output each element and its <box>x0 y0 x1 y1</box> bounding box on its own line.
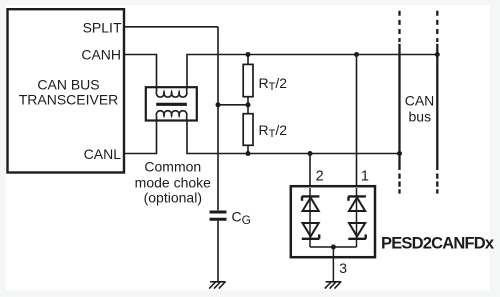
capacitor CG <box>210 212 227 219</box>
svg-text:CAN BUS: CAN BUS <box>37 77 99 93</box>
svg-text:1: 1 <box>361 169 369 185</box>
wire branch SPLIT to resistor midpoint <box>218 104 248 106</box>
junction node CANH-pin1 <box>354 52 359 57</box>
junction node CANH-bus <box>435 52 440 57</box>
label CG <box>232 209 251 228</box>
wire CANL pin to choke bottom-left <box>124 121 157 154</box>
wire resistor R1 top stub <box>247 55 249 65</box>
wire PESD pin 1 to CANH <box>356 55 358 187</box>
wire SPLIT pin to vertical <box>124 26 218 28</box>
TVS diode D1 top-left (zener up) <box>302 196 320 211</box>
wire choke top-right to CAN bus H line <box>187 55 437 89</box>
wire CG to ground <box>217 221 219 282</box>
ground under CG <box>209 282 226 289</box>
junction node SPLIT-branch <box>216 102 221 107</box>
resistor RT/2 upper <box>243 64 253 96</box>
pin label CANH <box>81 47 121 63</box>
common mode choke L1 <box>146 87 197 121</box>
wire choke bottom-right to CAN bus L line <box>187 121 400 154</box>
label CAN bus <box>405 93 435 125</box>
junction node CANL-R <box>246 151 251 156</box>
wire SPLIT vertical down to CG <box>217 27 219 211</box>
internal rail to pin 3 <box>310 247 357 281</box>
resistor RT/2 lower <box>243 114 253 146</box>
svg-text:mode choke: mode choke <box>135 175 211 191</box>
pin label CANL <box>84 146 122 162</box>
internal wire right stack <box>356 188 358 247</box>
svg-text:CAN: CAN <box>405 93 435 109</box>
label PESD2CANFDx <box>381 235 495 253</box>
CAN bus line CANH (right) <box>436 11 438 194</box>
pin label 2 <box>316 169 324 185</box>
junction node CANL-bus <box>397 151 402 156</box>
svg-text:bus: bus <box>409 109 432 125</box>
CAN bus line CANL (left) <box>398 11 400 194</box>
PESD2CANFDx box U2 <box>291 186 375 257</box>
label RT/2 lower <box>259 122 288 140</box>
svg-text:SPLIT: SPLIT <box>83 20 122 36</box>
junction node CANL-pin2 <box>308 151 313 156</box>
label Common mode choke (optional) <box>135 159 211 206</box>
junction node R midpoint <box>246 102 251 107</box>
pin label SPLIT <box>83 20 122 36</box>
junction node pin3 rail <box>331 245 336 250</box>
svg-text:3: 3 <box>339 260 347 276</box>
svg-text:CANH: CANH <box>81 47 121 63</box>
svg-text:PESD2CANFDx: PESD2CANFDx <box>381 235 495 253</box>
svg-text:CANL: CANL <box>84 146 122 162</box>
CAN BUS TRANSCEIVER box U1 <box>8 9 125 172</box>
svg-text:TRANSCEIVER: TRANSCEIVER <box>19 92 119 108</box>
svg-text:Common: Common <box>144 159 201 175</box>
junction node CANH-R <box>246 52 251 57</box>
pin label 1 <box>361 169 369 185</box>
label RT/2 upper <box>259 75 288 93</box>
ground under PESD pin 3 <box>325 282 342 289</box>
wire CANH pin to choke top-left <box>124 55 157 89</box>
wire PESD pin 2 to CANL <box>309 154 311 187</box>
svg-text:2: 2 <box>316 169 324 185</box>
svg-text:(optional): (optional) <box>144 190 202 206</box>
internal wire left stack <box>309 188 311 247</box>
wire resistor R2 bottom stub <box>247 145 249 153</box>
TVS diode D4 bottom-right (zener down) <box>348 223 366 239</box>
pin label 3 <box>339 260 347 276</box>
TVS diode D2 bottom-left (zener down) <box>302 223 320 239</box>
TVS diode D3 top-right (zener up) <box>348 196 366 211</box>
wire between resistors <box>247 97 249 114</box>
